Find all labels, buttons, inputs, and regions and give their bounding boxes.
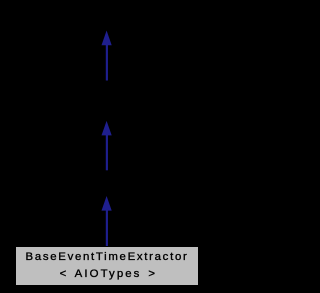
node: BaseEventTimeExtractor< AIOTypes > xyxy=(15,246,199,286)
wire: inheritance arrows xyxy=(0,0,213,293)
arrow 3 (bottom) xyxy=(102,196,112,247)
arrow 2 (middle) xyxy=(102,121,112,170)
arrow 1 (top) xyxy=(102,31,112,81)
